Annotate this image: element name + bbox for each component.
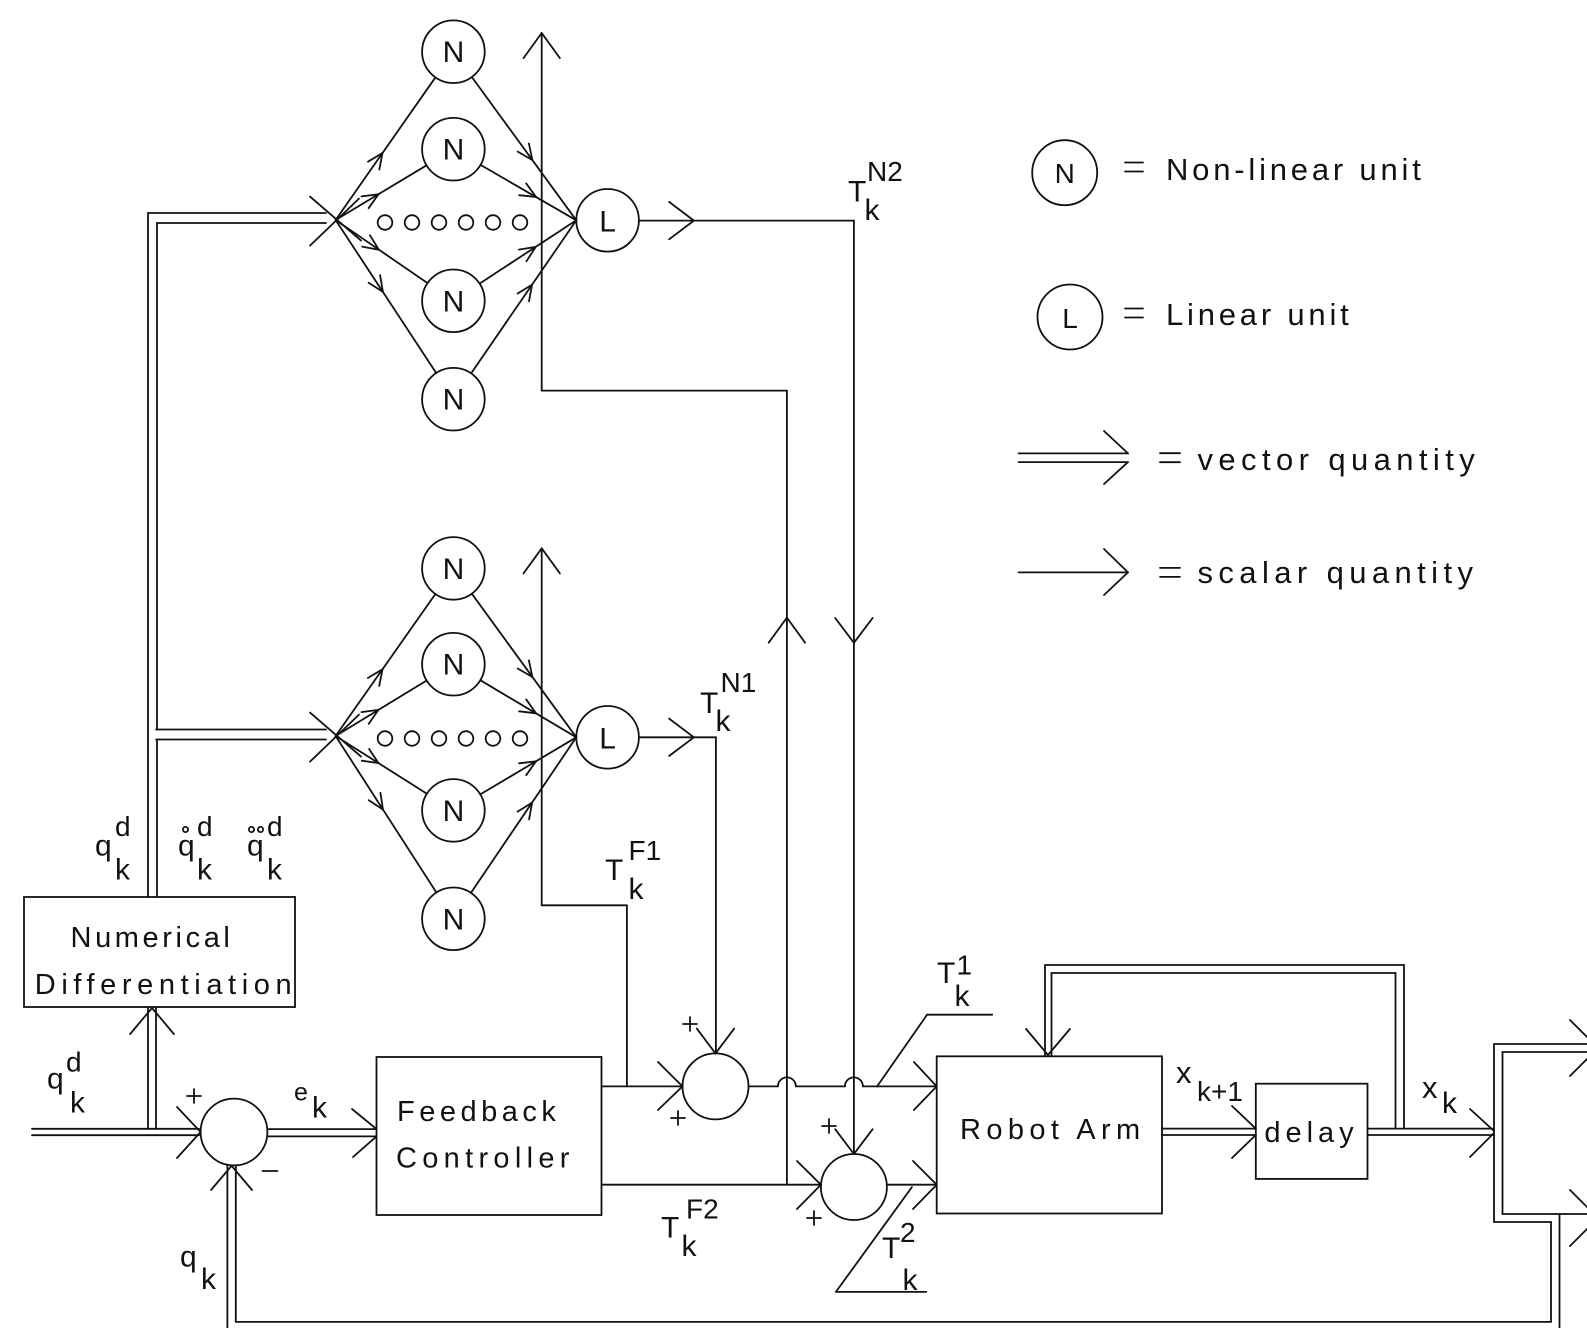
svg-text:k: k xyxy=(629,873,645,906)
svg-text:Non-linear unit: Non-linear unit xyxy=(1166,152,1425,187)
svg-text:N: N xyxy=(443,134,465,167)
svg-text:vector quantity: vector quantity xyxy=(1198,442,1481,477)
svg-text:T: T xyxy=(661,1212,679,1245)
svg-text:L: L xyxy=(1062,303,1078,334)
svg-text:delay: delay xyxy=(1264,1117,1358,1149)
svg-text:k: k xyxy=(903,1264,919,1297)
svg-text:k: k xyxy=(267,854,283,887)
svg-text:N: N xyxy=(443,553,465,586)
svg-text:N: N xyxy=(443,903,465,936)
svg-text:d: d xyxy=(66,1047,82,1078)
svg-text:k: k xyxy=(1442,1087,1458,1120)
svg-text:N: N xyxy=(443,649,465,682)
svg-text:x: x xyxy=(1176,1055,1192,1090)
svg-text:d: d xyxy=(267,811,283,842)
svg-text:k+1: k+1 xyxy=(1197,1076,1243,1107)
svg-text:q: q xyxy=(180,1241,197,1274)
svg-text:k: k xyxy=(682,1230,698,1263)
svg-text:T: T xyxy=(605,854,623,887)
svg-text:k: k xyxy=(70,1087,86,1120)
svg-text:scalar quantity: scalar quantity xyxy=(1198,555,1479,590)
svg-text:Differentiation: Differentiation xyxy=(35,969,297,1001)
svg-text:L: L xyxy=(599,722,616,755)
svg-text:T: T xyxy=(937,957,955,990)
svg-text:q: q xyxy=(178,830,195,863)
svg-text:k: k xyxy=(865,194,881,227)
svg-text:k: k xyxy=(197,854,213,887)
svg-text:2: 2 xyxy=(900,1217,916,1248)
svg-text:N: N xyxy=(443,795,465,828)
svg-text:L: L xyxy=(599,205,616,238)
svg-text:q: q xyxy=(95,830,112,863)
svg-text:d: d xyxy=(197,811,213,842)
svg-text:N: N xyxy=(1055,158,1075,189)
svg-text:Controller: Controller xyxy=(396,1143,575,1175)
svg-text:Feedback: Feedback xyxy=(397,1096,560,1128)
svg-text:F2: F2 xyxy=(686,1194,719,1225)
svg-text:N: N xyxy=(443,285,465,318)
svg-text:k: k xyxy=(115,854,131,887)
svg-text:Robot Arm: Robot Arm xyxy=(960,1114,1146,1146)
svg-text:d: d xyxy=(115,811,131,842)
svg-text:k: k xyxy=(312,1092,328,1125)
svg-text:e: e xyxy=(294,1079,308,1107)
svg-text:Linear unit: Linear unit xyxy=(1166,297,1353,332)
svg-text:N: N xyxy=(443,384,465,417)
svg-text:T: T xyxy=(882,1232,900,1265)
svg-text:k: k xyxy=(955,980,971,1013)
svg-text:F1: F1 xyxy=(629,835,662,866)
svg-text:k: k xyxy=(201,1263,217,1296)
svg-text:q: q xyxy=(47,1063,64,1096)
svg-text:x: x xyxy=(1422,1070,1438,1105)
svg-text:N: N xyxy=(443,36,465,69)
svg-text:k: k xyxy=(716,705,732,738)
svg-text:Numerical: Numerical xyxy=(71,922,234,954)
svg-text:N2: N2 xyxy=(867,156,903,187)
svg-text:1: 1 xyxy=(957,950,973,981)
svg-text:q: q xyxy=(247,830,264,863)
svg-text:N1: N1 xyxy=(721,667,757,698)
